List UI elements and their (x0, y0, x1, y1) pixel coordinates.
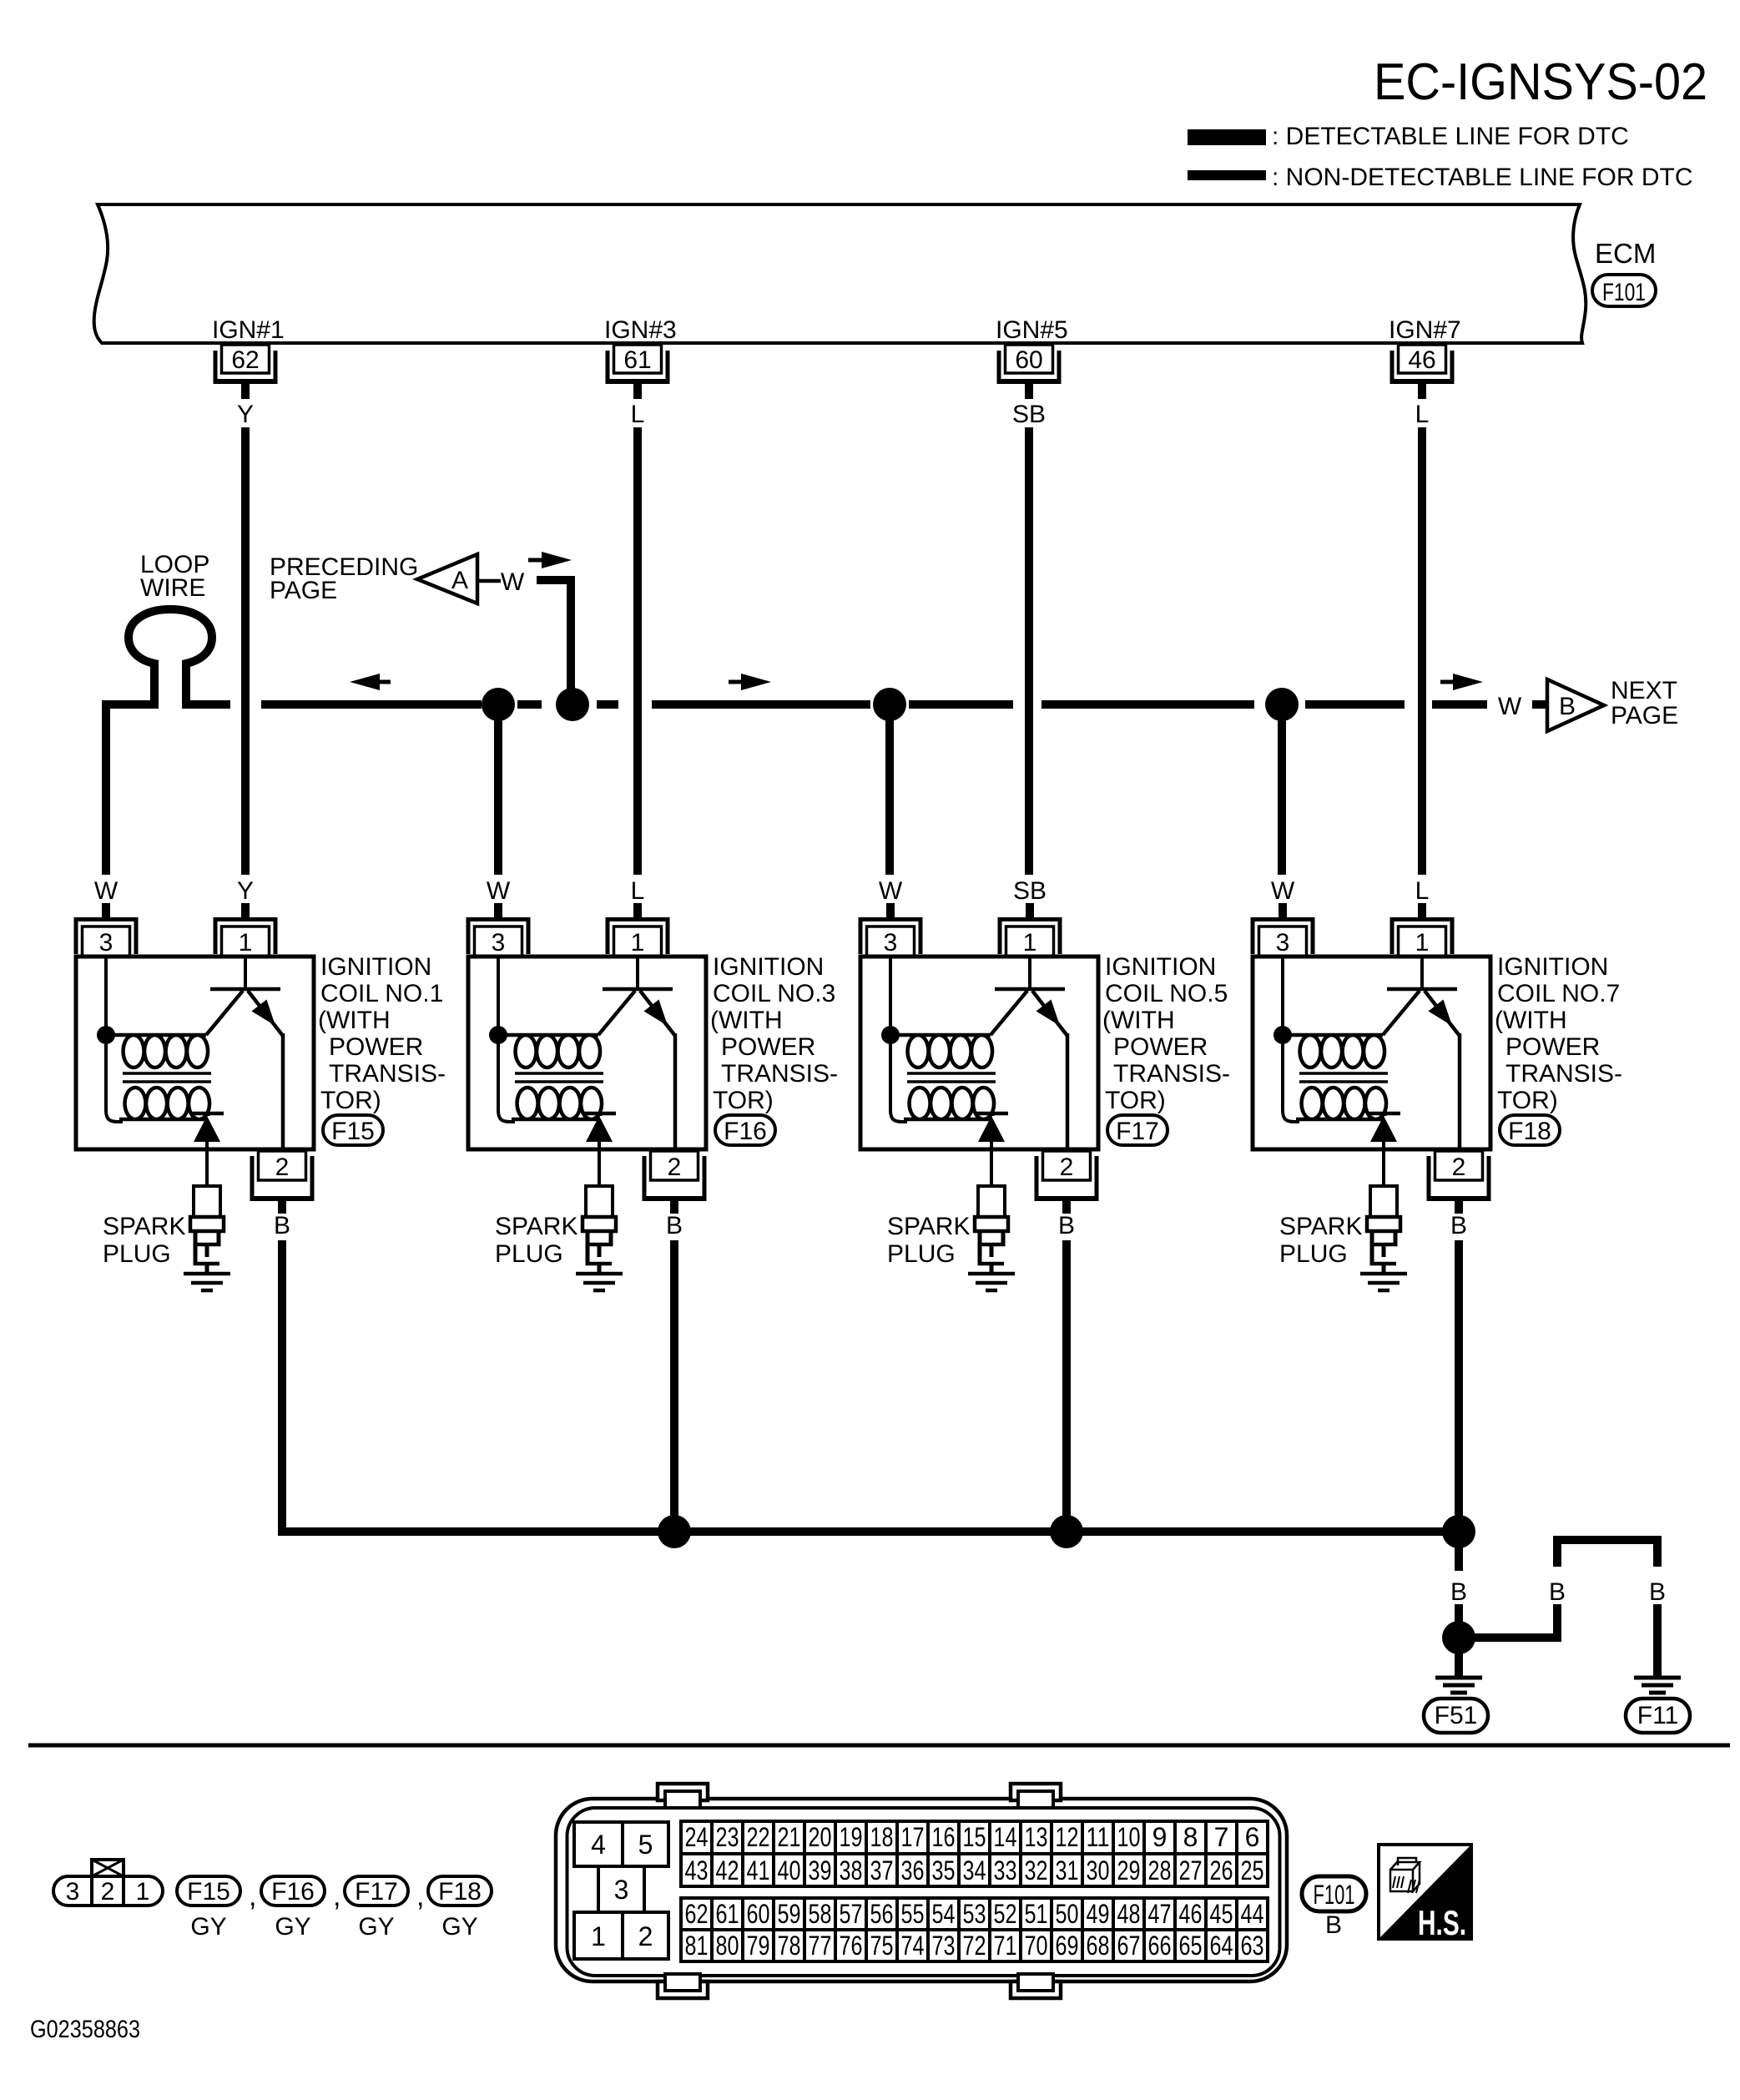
lower ground bus wire (278, 1527, 1459, 1536)
svg-text:53: 53 (963, 1899, 986, 1929)
svg-text:F18: F18 (438, 1878, 482, 1906)
legend detectable line bar (1188, 129, 1266, 145)
svg-text:80: 80 (716, 1931, 739, 1961)
lower bus junction node (coil 7) (1442, 1515, 1475, 1548)
svg-text:61: 61 (623, 346, 651, 374)
svg-text:TRANSIS-: TRANSIS- (1113, 1060, 1230, 1088)
svg-text:ECM: ECM (1595, 238, 1656, 269)
svg-text:GY: GY (275, 1913, 310, 1941)
arrow right above preceding wire (528, 552, 572, 568)
bus wire segment 1 (261, 700, 482, 709)
svg-text:46: 46 (1179, 1899, 1203, 1929)
wire from W down to bus junction (537, 576, 575, 704)
svg-text:L: L (1415, 401, 1430, 428)
svg-text:78: 78 (778, 1931, 801, 1961)
ignition coil no.7 label (1495, 953, 1622, 1114)
svg-text:12: 12 (1056, 1822, 1079, 1852)
svg-text:3: 3 (884, 929, 898, 957)
coil 1 pin 2 stub (278, 1201, 286, 1214)
svg-text:F15: F15 (187, 1878, 230, 1906)
svg-text:IGNITION: IGNITION (320, 953, 431, 981)
coil 3 primary winding (498, 1035, 600, 1068)
SPARK PLUG label coil 5 (887, 1213, 970, 1268)
svg-text:52: 52 (994, 1899, 1017, 1929)
coil 7 power transistor collector with arrow (1425, 991, 1460, 1036)
svg-text:35: 35 (932, 1855, 956, 1885)
ECM terminal 46 bracket (1390, 351, 1455, 384)
svg-text:54: 54 (932, 1899, 956, 1929)
bus junction node 2 (to preceding page) (556, 688, 589, 721)
svg-text:17: 17 (901, 1822, 925, 1852)
wire IGN#3 vertical (633, 427, 642, 875)
ECM terminal 61 box (614, 345, 662, 374)
svg-text:49: 49 (1087, 1899, 1110, 1929)
ECM label (1595, 238, 1656, 269)
connector key cell 1 (574, 1912, 623, 1959)
coil 7 internal wire from pin 3 (1283, 957, 1299, 1122)
svg-text:GY: GY (441, 1913, 477, 1941)
spark plug 7 ground (1360, 1272, 1407, 1293)
svg-text:IGNITION: IGNITION (713, 953, 824, 981)
wire down to F11 ground (1653, 1604, 1662, 1676)
ECM pin label IGN#3 (604, 316, 677, 344)
svg-text:L: L (631, 877, 645, 905)
svg-text:23: 23 (716, 1822, 739, 1852)
coil 1 primary winding (106, 1035, 208, 1068)
svg-text:TRANSIS-: TRANSIS- (329, 1060, 446, 1088)
svg-text:42: 42 (716, 1855, 739, 1885)
bus wire segment 4 (652, 700, 870, 709)
svg-text:IGN#5: IGN#5 (996, 316, 1068, 344)
svg-text:PAGE: PAGE (270, 577, 337, 604)
coil 5 secondary to diode link (991, 1113, 995, 1116)
wire color label L (1415, 401, 1430, 428)
svg-text:31: 31 (1056, 1855, 1079, 1885)
coil 3 collector wire down (673, 1033, 678, 1149)
coil 1 power transistor base wire (244, 957, 247, 987)
coil 1 power transistor base bar (210, 987, 280, 992)
svg-text:58: 58 (809, 1899, 832, 1929)
svg-text:(WITH: (WITH (1102, 1007, 1175, 1034)
coil 7 pin 2 bracket (1427, 1156, 1491, 1201)
svg-text:9: 9 (1152, 1822, 1168, 1852)
coil 5 pin 1 stub (1026, 903, 1034, 918)
next page triangle B (1547, 679, 1604, 731)
svg-text:2: 2 (1060, 1153, 1074, 1181)
ignition coil no.3 box (468, 957, 706, 1149)
wire color label B below coil 3 (666, 1212, 683, 1239)
spark plug 3 ground (576, 1272, 623, 1293)
spark plug 5 (975, 1186, 1008, 1273)
coil 3 pin 2 box (651, 1151, 699, 1181)
SPARK PLUG label coil 7 (1279, 1213, 1362, 1268)
coil 7 power transistor base wire (1420, 957, 1424, 987)
ECM connector top tab (1011, 1784, 1061, 1808)
coil 7 power transistor base bar (1387, 987, 1457, 992)
svg-text:TOR): TOR) (713, 1087, 774, 1114)
svg-text:SPARK: SPARK (1279, 1213, 1362, 1240)
bus wire segment 3 (597, 700, 618, 709)
coil 5 secondary winding (904, 1088, 994, 1119)
ECM terminal 60 bracket (997, 351, 1062, 384)
wire from ground node to bridge (1473, 1633, 1561, 1642)
svg-text:PLUG: PLUG (103, 1240, 171, 1268)
svg-text:27: 27 (1179, 1855, 1203, 1885)
wire down from lower bus (1455, 1532, 1463, 1571)
coil 5 diode (975, 1112, 1008, 1142)
svg-text:21: 21 (778, 1822, 801, 1852)
document number G02358863 (30, 2016, 140, 2043)
svg-text:62: 62 (685, 1899, 709, 1929)
wire color label B (left ground) (1450, 1578, 1467, 1606)
link line from triangle A to W (477, 579, 501, 583)
svg-text:B: B (1325, 1911, 1342, 1939)
svg-text:1: 1 (136, 1878, 150, 1906)
svg-text:70: 70 (1025, 1931, 1048, 1961)
svg-text:POWER: POWER (1505, 1033, 1600, 1061)
svg-text:NEXT: NEXT (1611, 677, 1677, 704)
coil 1 pin 3 bracket (74, 917, 139, 954)
coil 1 pin 1 stub (241, 903, 250, 918)
svg-text:PLUG: PLUG (887, 1240, 956, 1268)
spark plug 7 (1367, 1186, 1400, 1273)
svg-text:W: W (879, 877, 903, 905)
svg-text:(WITH: (WITH (1495, 1007, 1567, 1034)
wire from node 3 down to coil 5 (885, 704, 894, 875)
spark plug 1 ground (184, 1272, 230, 1293)
coil 3 secondary winding (512, 1088, 602, 1119)
svg-text:POWER: POWER (329, 1033, 423, 1061)
svg-text:F17: F17 (1116, 1118, 1159, 1145)
svg-text:B: B (1649, 1578, 1666, 1606)
coil 5 power transistor emitter (991, 991, 1027, 1035)
comma (249, 1880, 256, 1912)
color label GY under F17 (358, 1913, 394, 1941)
coil 5 pin 1 bracket (998, 917, 1062, 954)
wire color label L (631, 401, 645, 428)
svg-text:75: 75 (870, 1931, 894, 1961)
coil 7 diode (1367, 1112, 1400, 1142)
svg-text:81: 81 (685, 1931, 709, 1961)
svg-text:TRANSIS-: TRANSIS- (721, 1060, 838, 1088)
coil 1 connector oval F15 (323, 1115, 383, 1145)
svg-text:16: 16 (932, 1822, 956, 1852)
svg-text:PAGE: PAGE (1611, 702, 1678, 729)
svg-text:L: L (631, 401, 645, 428)
svg-text:2: 2 (275, 1153, 290, 1181)
svg-text:24: 24 (685, 1822, 709, 1852)
svg-text:28: 28 (1148, 1855, 1172, 1885)
svg-text:7: 7 (1214, 1822, 1229, 1852)
bus wire segment 6 (1041, 700, 1254, 709)
ECM connector pin grid lower (681, 1898, 1268, 1961)
coil 3 pin 2 stub (670, 1201, 678, 1214)
wire color label W (next page) (1498, 693, 1522, 720)
wire color label B below coil 1 (274, 1212, 290, 1239)
svg-text:GY: GY (358, 1913, 394, 1941)
svg-text:2: 2 (638, 1921, 653, 1951)
ECM pin label IGN#7 (1389, 316, 1461, 344)
wire stub below terminal 60 (1025, 384, 1033, 399)
ignition coil no.1 label (318, 953, 446, 1114)
bus junction node 3 (873, 688, 906, 721)
svg-text:25: 25 (1241, 1855, 1264, 1885)
coil 7 connector oval F18 (1500, 1115, 1560, 1145)
coil 3 pin 2 bracket (643, 1156, 707, 1201)
ECM box (94, 204, 1586, 343)
svg-text:F18: F18 (1508, 1118, 1551, 1145)
svg-text:: NON-DETECTABLE LINE FOR DTC: : NON-DETECTABLE LINE FOR DTC (1272, 164, 1693, 191)
coil 1 power transistor collector with arrow (248, 991, 283, 1036)
wire color label B below coil 5 (1058, 1212, 1075, 1239)
bus junction node 4 (1265, 688, 1299, 721)
coil 7 primary junction node (1273, 1026, 1292, 1044)
svg-text:TOR): TOR) (320, 1087, 381, 1114)
svg-text:F17: F17 (355, 1878, 398, 1906)
connector key cell 2 (623, 1912, 668, 1959)
svg-text:68: 68 (1087, 1931, 1110, 1961)
wire color label SB above coil 5 pin 1 (1013, 877, 1047, 905)
svg-text:IGN#7: IGN#7 (1389, 316, 1461, 344)
svg-text:38: 38 (840, 1855, 863, 1885)
preceding page triangle A (417, 554, 477, 603)
svg-text:76: 76 (840, 1931, 863, 1961)
coil 3 core lines (515, 1072, 603, 1083)
svg-text:(WITH: (WITH (710, 1007, 783, 1034)
svg-text:F101: F101 (1602, 279, 1646, 306)
coil 5 pin 2 stub (1062, 1201, 1071, 1214)
coil 5 pin 3 stub (886, 903, 895, 918)
svg-text:2: 2 (668, 1153, 682, 1181)
ignition coil no.5 label (1102, 953, 1230, 1114)
wire color label W above coil 7 pin 3 (1271, 877, 1295, 905)
svg-text:EC-IGNSYS-02: EC-IGNSYS-02 (1374, 53, 1707, 111)
svg-text:IGN#1: IGN#1 (212, 316, 285, 344)
loop wire symbol (129, 609, 212, 709)
ECM connector top tab (658, 1784, 708, 1808)
coil 3 power transistor base bar (603, 987, 673, 992)
ignition coil no.7 box (1253, 957, 1490, 1149)
wire B from coil 3 down (670, 1240, 678, 1536)
ECM terminal 61 bracket (606, 351, 670, 384)
PRECEDING PAGE label (270, 553, 418, 604)
svg-text:B: B (666, 1212, 683, 1239)
ignition coil no.1 box (76, 957, 314, 1149)
wire color label L above coil 7 pin 1 (1415, 877, 1430, 905)
svg-text:,: , (333, 1880, 340, 1912)
svg-text:14: 14 (994, 1822, 1017, 1852)
svg-text:32: 32 (1025, 1855, 1048, 1885)
svg-text:45: 45 (1210, 1899, 1233, 1929)
svg-text:G02358863: G02358863 (30, 2016, 140, 2043)
ground symbol F51 (1435, 1676, 1482, 1695)
coil 5 connector oval F17 (1107, 1115, 1168, 1145)
svg-text:60: 60 (747, 1899, 770, 1929)
wire from node 1 down to coil 3 (494, 704, 502, 875)
wire stub to ground node (1455, 1604, 1463, 1623)
svg-text:B: B (1058, 1212, 1075, 1239)
ECM pin label IGN#1 (212, 316, 285, 344)
svg-text:COIL NO.1: COIL NO.1 (320, 980, 443, 1007)
ECM connector pin grid upper (681, 1821, 1268, 1886)
H.S. inspection icon (1379, 1845, 1471, 1942)
wire B from coil 7 down (1455, 1240, 1463, 1536)
wire color label L above coil 3 pin 1 (631, 877, 645, 905)
coil 5 power transistor collector with arrow (1032, 991, 1067, 1036)
svg-text:COIL NO.7: COIL NO.7 (1497, 980, 1620, 1007)
svg-text:SB: SB (1012, 401, 1046, 428)
coil 1 pin 3 stub (102, 903, 110, 918)
wire stub below terminal 62 (241, 384, 250, 399)
svg-text:39: 39 (809, 1855, 832, 1885)
coil 7 pin 1 stub (1418, 903, 1426, 918)
svg-text:L: L (1415, 877, 1430, 905)
ECM terminal 62 bracket (214, 351, 278, 384)
ECM terminal 46 box (1399, 345, 1446, 374)
SPARK PLUG label coil 3 (495, 1213, 577, 1268)
connector oval F15 (bottom) (177, 1876, 240, 1906)
coil 5 pin 3 bracket (859, 917, 923, 954)
coil 3 pin 3 stub (494, 903, 502, 918)
svg-text:30: 30 (1087, 1855, 1110, 1885)
comma (416, 1880, 424, 1912)
svg-text:3: 3 (99, 929, 113, 957)
svg-text:SB: SB (1013, 877, 1047, 905)
wire IGN#7 vertical (1418, 427, 1426, 875)
svg-text:33: 33 (994, 1855, 1017, 1885)
coil 3 pin 3 box (475, 926, 522, 957)
svg-text:WIRE: WIRE (140, 574, 205, 602)
F51 ground stub (1455, 1651, 1463, 1676)
ground connector oval F51 (1424, 1699, 1488, 1733)
bus wire segment 7 (1305, 700, 1405, 709)
svg-text:PLUG: PLUG (495, 1240, 563, 1268)
svg-text:1: 1 (1415, 929, 1430, 957)
wire IGN#1 vertical (241, 427, 250, 875)
coil 7 pin 1 box (1399, 926, 1446, 957)
coil connector pinout icon 3-2-1 (53, 1860, 163, 1906)
coil 3 internal wire from pin 3 (498, 957, 515, 1122)
svg-text:POWER: POWER (721, 1033, 815, 1061)
svg-text:1: 1 (631, 929, 645, 957)
bus wire segment 2 (517, 700, 542, 709)
coil 5 primary winding (890, 1035, 992, 1068)
svg-text:,: , (416, 1880, 424, 1912)
svg-text:SPARK: SPARK (495, 1213, 577, 1240)
svg-text:GY: GY (190, 1913, 226, 1941)
coil 7 pin 3 bracket (1251, 917, 1315, 954)
color label GY under F16 (275, 1913, 310, 1941)
svg-text:19: 19 (840, 1822, 863, 1852)
coil 1 pin 2 box (259, 1151, 306, 1181)
spark plug 5 ground (968, 1272, 1015, 1293)
coil 3 diode (583, 1112, 616, 1142)
svg-text:8: 8 (1183, 1822, 1198, 1852)
wire color label Y above coil 1 pin 1 (237, 877, 254, 905)
ECM connector body outline (556, 1799, 1287, 1981)
coil 3 power transistor emitter (598, 991, 635, 1035)
svg-text:20: 20 (809, 1822, 832, 1852)
coil 1 pin 1 box (222, 926, 270, 957)
svg-text:COIL NO.3: COIL NO.3 (713, 980, 835, 1007)
coil 7 pin 3 stub (1279, 903, 1287, 918)
bus junction node 1 (482, 688, 515, 721)
svg-text:10: 10 (1117, 1822, 1141, 1852)
connector key cell 4 (574, 1822, 623, 1866)
loop wire left bend to coil 1 (102, 700, 159, 875)
coil 7 collector wire down (1458, 1033, 1462, 1149)
svg-text:2: 2 (101, 1878, 115, 1906)
svg-text:(WITH: (WITH (318, 1007, 391, 1034)
wire from node 4 down to coil 7 (1278, 704, 1286, 875)
svg-text:W: W (1271, 877, 1295, 905)
svg-text:47: 47 (1148, 1899, 1172, 1929)
ground connector oval F11 (1626, 1699, 1690, 1733)
wire stub below terminal 61 (633, 384, 642, 399)
coil 1 secondary to diode link (207, 1113, 210, 1116)
svg-text:SPARK: SPARK (887, 1213, 970, 1240)
svg-text:18: 18 (870, 1822, 894, 1852)
H.S. icon connector glyph (1390, 1858, 1420, 1893)
coil 1 secondary winding (119, 1088, 209, 1119)
coil 1 pin 2 bracket (250, 1156, 315, 1201)
svg-text:46: 46 (1408, 346, 1435, 374)
coil 1 wire diode to spark plug (205, 1142, 209, 1186)
svg-text:IGNITION: IGNITION (1497, 953, 1608, 981)
coil 7 pin 2 stub (1455, 1201, 1463, 1214)
color label GY under F18 (441, 1913, 477, 1941)
svg-text:63: 63 (1241, 1931, 1264, 1961)
svg-text:3: 3 (1276, 929, 1290, 957)
svg-text:TRANSIS-: TRANSIS- (1505, 1060, 1622, 1088)
wire IGN#5 vertical (1025, 427, 1033, 875)
svg-text:48: 48 (1117, 1899, 1141, 1929)
coil 5 internal wire from pin 3 (890, 957, 907, 1122)
coil 5 collector wire down (1066, 1033, 1070, 1149)
svg-text:79: 79 (747, 1931, 770, 1961)
svg-text:B: B (1450, 1212, 1467, 1239)
svg-text:36: 36 (901, 1855, 925, 1885)
connector oval F101 (bottom) (1302, 1876, 1366, 1911)
svg-text:A: A (451, 567, 468, 594)
wire color label W above coil 1 pin 3 (94, 877, 119, 905)
wire stub below terminal 46 (1418, 384, 1426, 399)
svg-text:COIL NO.5: COIL NO.5 (1105, 980, 1228, 1007)
svg-text:B: B (1559, 693, 1576, 720)
svg-text:5: 5 (638, 1830, 653, 1860)
wire color label B (right ground) (1649, 1578, 1666, 1606)
coil 1 primary junction node (97, 1026, 115, 1044)
svg-text:41: 41 (747, 1855, 770, 1885)
connector oval F18 (bottom) (428, 1876, 492, 1906)
coil 5 wire diode to spark plug (990, 1142, 993, 1186)
coil 5 power transistor base bar (995, 987, 1065, 992)
svg-text:1: 1 (591, 1921, 606, 1951)
svg-text:11: 11 (1087, 1822, 1110, 1852)
svg-text:F101: F101 (1314, 1880, 1355, 1910)
ground junction node (1442, 1621, 1475, 1654)
svg-text:71: 71 (994, 1931, 1017, 1961)
svg-text:F16: F16 (271, 1878, 315, 1906)
svg-text:26: 26 (1210, 1855, 1233, 1885)
svg-text:PLUG: PLUG (1279, 1240, 1348, 1268)
svg-text:B: B (1450, 1578, 1467, 1606)
svg-text:W: W (94, 877, 119, 905)
ECM connector bottom tab (1011, 1974, 1061, 1998)
svg-text:B: B (1549, 1578, 1566, 1606)
svg-text:69: 69 (1056, 1931, 1079, 1961)
ECM pin label IGN#5 (996, 316, 1068, 344)
